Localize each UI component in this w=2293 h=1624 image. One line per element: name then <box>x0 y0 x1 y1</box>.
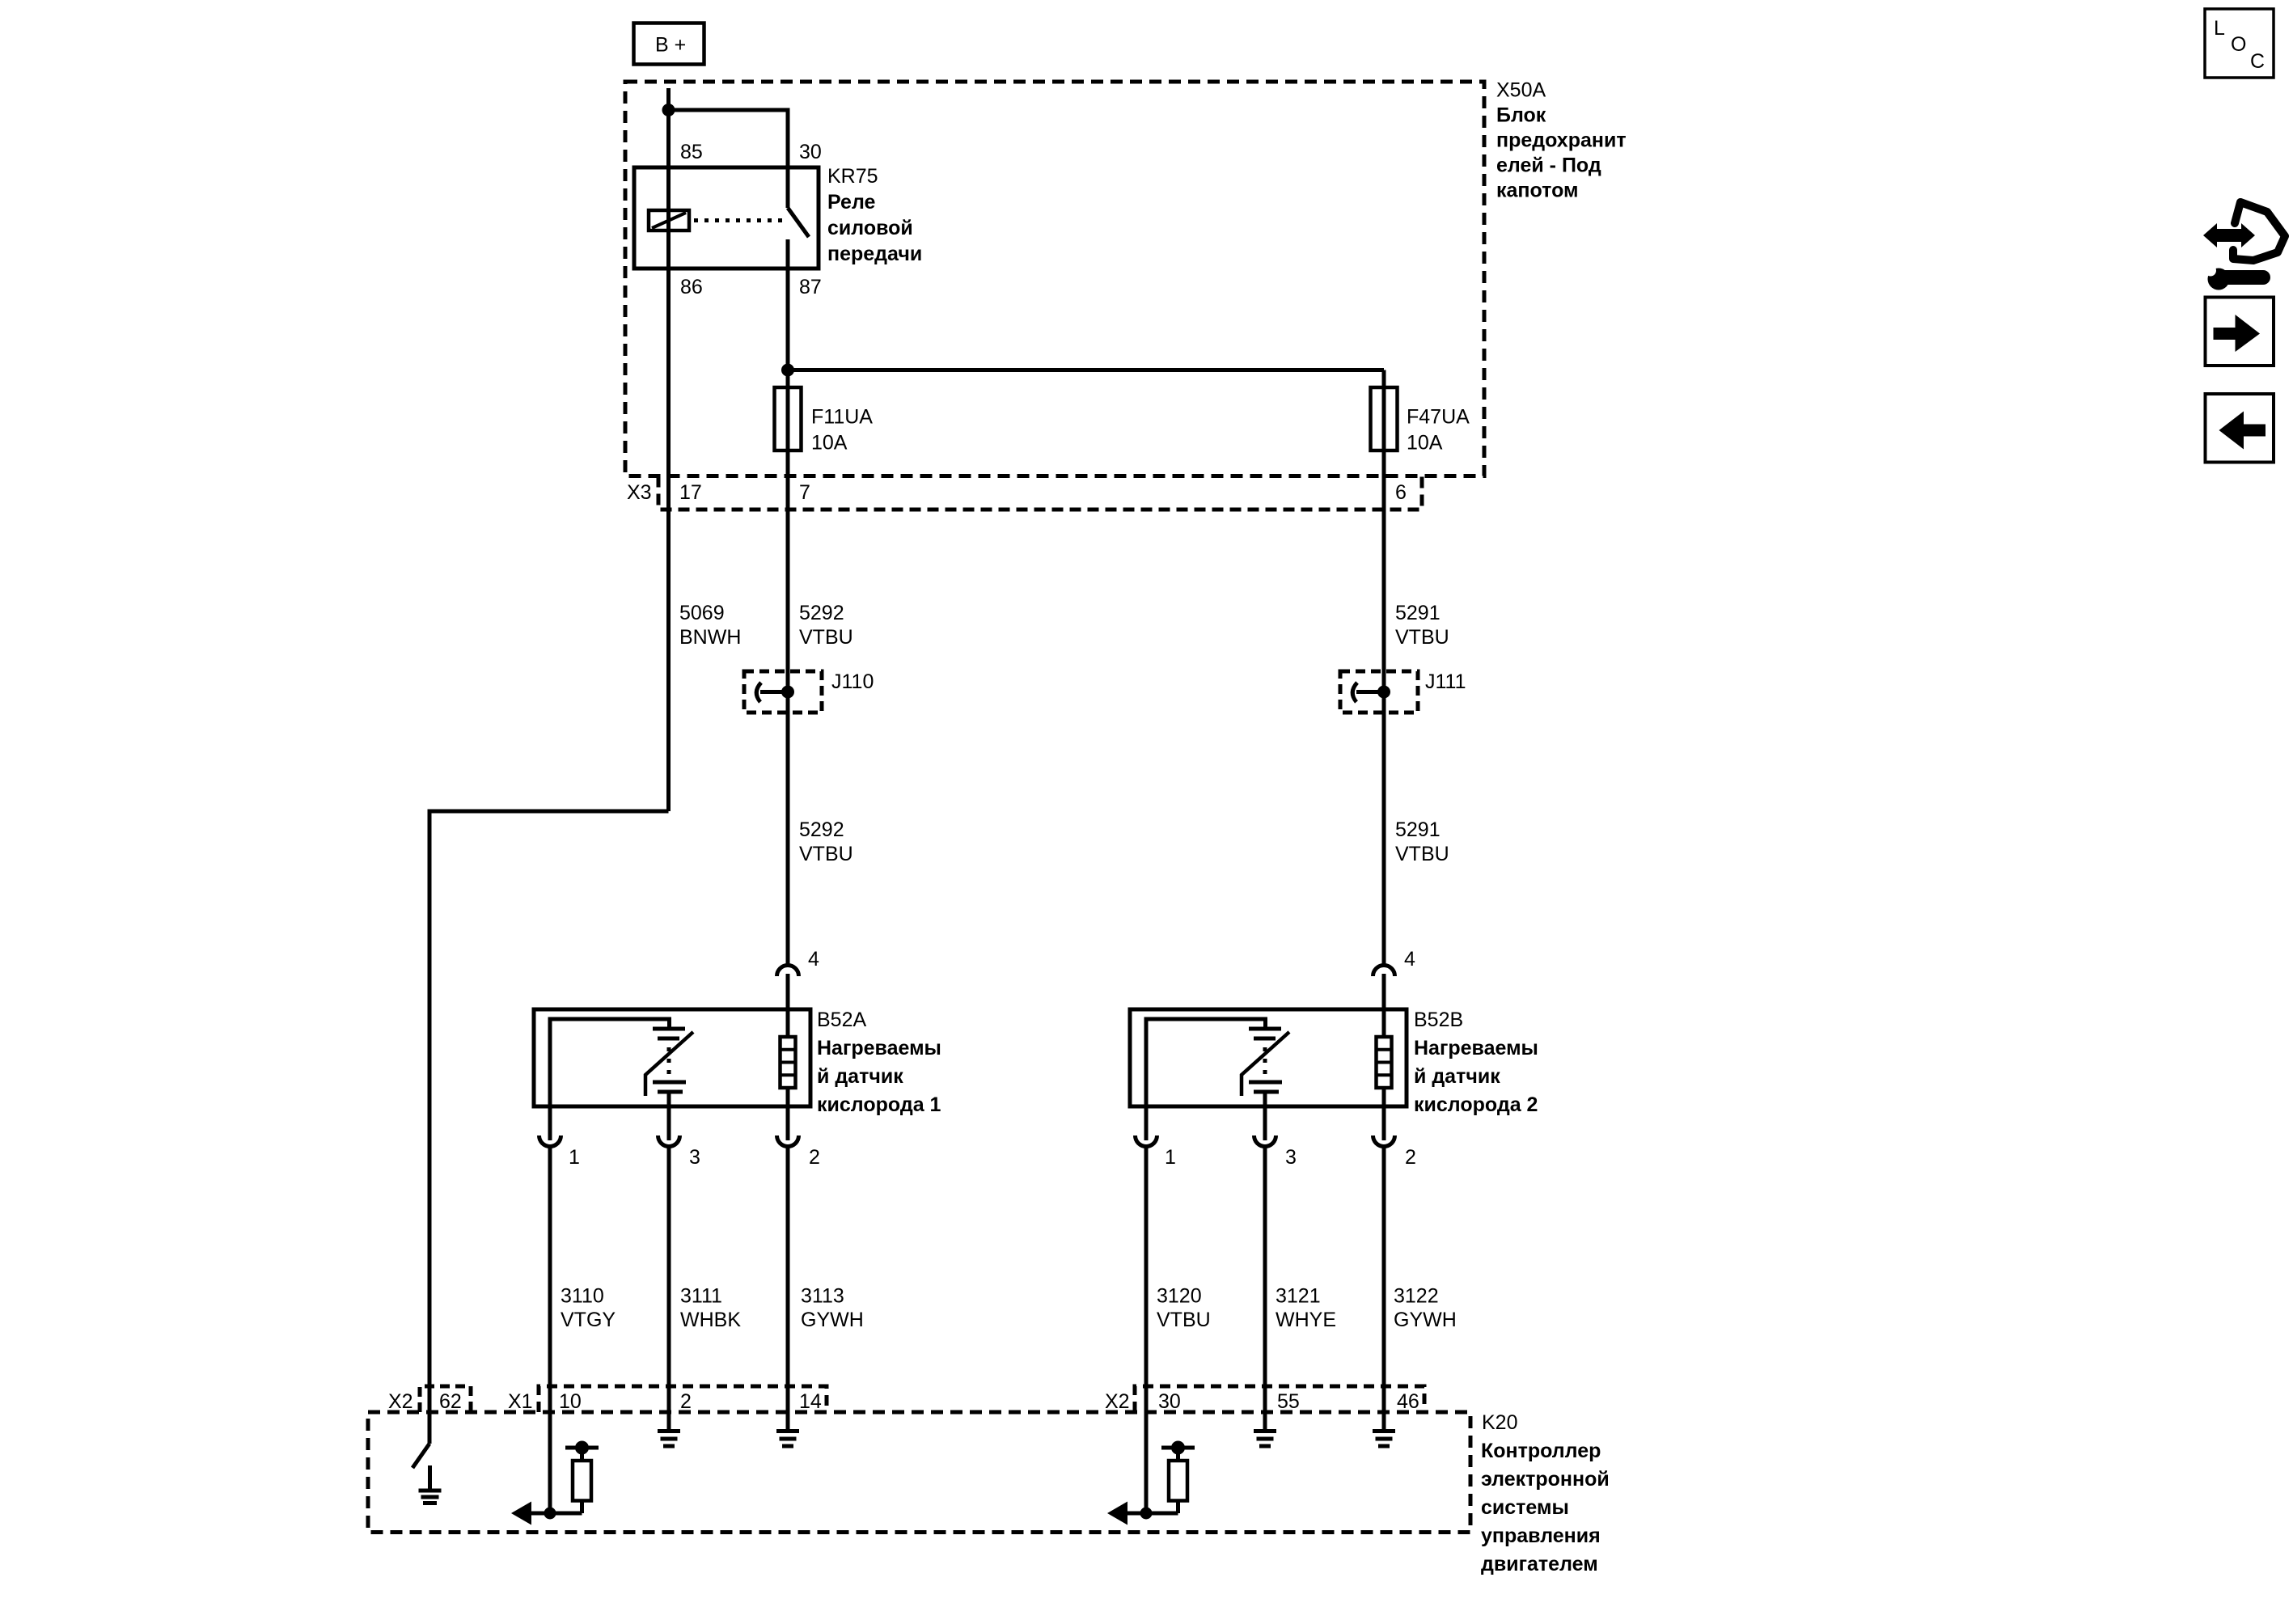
svg-text:5291: 5291 <box>1395 602 1441 624</box>
svg-text:2: 2 <box>680 1390 692 1413</box>
svg-text:KR75: KR75 <box>827 165 878 188</box>
K20 internal signal arrow right <box>1123 1512 1178 1516</box>
connector X1 pin dashed box <box>539 1386 827 1412</box>
svg-text:F11UA: F11UA <box>811 406 873 429</box>
svg-text:Нагреваемы: Нагреваемы <box>817 1037 941 1059</box>
svg-text:4: 4 <box>808 948 819 971</box>
svg-text:управления: управления <box>1481 1525 1601 1547</box>
svg-text:4: 4 <box>1404 948 1415 971</box>
svg-text:капотом: капотом <box>1496 180 1579 202</box>
wire 5291 from X3-6 to sensor 2 <box>1382 476 1386 968</box>
B52A pin 4 connector arc <box>777 966 799 977</box>
svg-text:BNWH: BNWH <box>679 626 741 649</box>
svg-text:3110: 3110 <box>561 1285 604 1308</box>
B52B pin 3 connector cup <box>1254 1136 1276 1147</box>
node junction under pin 87 <box>784 366 793 374</box>
relay switch blade <box>788 208 809 237</box>
svg-text:3111: 3111 <box>680 1285 722 1308</box>
svg-text:10A: 10A <box>811 432 848 455</box>
K20 switch upper contact from pin 62 <box>428 1412 432 1444</box>
svg-text:17: 17 <box>679 481 702 504</box>
B52B pin 1 stub <box>1144 1106 1149 1140</box>
svg-text:B52B: B52B <box>1414 1009 1463 1031</box>
connector X2-62 pin dashed box <box>420 1386 471 1412</box>
svg-text:й датчик: й датчик <box>1414 1065 1500 1088</box>
B52B heater element <box>1377 1037 1392 1088</box>
svg-text:14: 14 <box>799 1390 822 1413</box>
svg-text:2: 2 <box>809 1146 820 1169</box>
svg-text:3121: 3121 <box>1276 1285 1321 1308</box>
svg-text:GYWH: GYWH <box>801 1309 864 1331</box>
svg-text:B52A: B52A <box>817 1009 866 1031</box>
svg-text:Реле: Реле <box>827 191 876 214</box>
svg-text:X50A: X50A <box>1496 79 1546 102</box>
backward arrow box <box>2206 394 2274 463</box>
K20 pull-up resistor right <box>1176 1501 1180 1514</box>
svg-text:Контроллер: Контроллер <box>1481 1440 1601 1462</box>
wire 3121 <box>1263 1147 1267 1432</box>
svg-text:10: 10 <box>559 1390 582 1413</box>
node junction at pin85 branch <box>664 106 673 115</box>
svg-text:двигателем: двигателем <box>1481 1553 1598 1575</box>
svg-text:системы: системы <box>1481 1496 1569 1519</box>
svg-text:3: 3 <box>1285 1146 1297 1169</box>
svg-text:87: 87 <box>799 276 822 298</box>
svg-text:5292: 5292 <box>799 602 844 624</box>
X50A fuse block dashed box <box>625 82 1484 476</box>
svg-text:6: 6 <box>1395 481 1407 504</box>
svg-text:VTBU: VTBU <box>1157 1309 1211 1331</box>
wire 5069 corner to X2-62 <box>429 811 669 1444</box>
wire 3111 <box>667 1147 671 1432</box>
relay KR75 box <box>634 167 819 269</box>
ECM K20 dashed box <box>368 1412 1470 1533</box>
K20 switch lower contact <box>428 1465 432 1489</box>
svg-text:85: 85 <box>680 141 703 163</box>
svg-text:3120: 3120 <box>1157 1285 1202 1308</box>
ground under X1-14 <box>776 1429 799 1433</box>
svg-text:30: 30 <box>1158 1390 1181 1413</box>
svg-text:VTBU: VTBU <box>799 843 853 865</box>
svg-text:L: L <box>2214 17 2225 40</box>
svg-text:J111: J111 <box>1425 670 1466 693</box>
ground under X1-2 <box>658 1429 669 1433</box>
B+ supply box <box>634 23 704 65</box>
svg-text:5292: 5292 <box>799 818 844 841</box>
B52B pin 2 connector cup <box>1373 1136 1395 1147</box>
svg-text:46: 46 <box>1397 1390 1419 1413</box>
splice J110 node <box>784 687 793 696</box>
svg-text:VTBU: VTBU <box>1395 843 1449 865</box>
svg-text:VTGY: VTGY <box>561 1309 616 1331</box>
svg-text:F47UA: F47UA <box>1407 406 1470 429</box>
svg-text:C: C <box>2250 50 2265 73</box>
svg-text:30: 30 <box>799 141 822 163</box>
svg-text:K20: K20 <box>1482 1411 1517 1434</box>
svg-text:VTBU: VTBU <box>799 626 853 649</box>
svg-text:5291: 5291 <box>1395 818 1441 841</box>
fuse F11UA <box>775 387 802 450</box>
svg-text:7: 7 <box>799 481 810 504</box>
svg-text:передачи: передачи <box>827 243 922 265</box>
harness routing icon double arrow <box>2203 223 2255 247</box>
svg-text:1: 1 <box>569 1146 580 1169</box>
B52A heater element <box>781 1037 796 1088</box>
wire bus to F47UA <box>788 368 1384 372</box>
svg-text:WHYE: WHYE <box>1276 1309 1336 1331</box>
oxygen sensor B52A box <box>534 1009 810 1106</box>
relay lower contact wire pin 87 <box>786 239 790 370</box>
svg-text:предохранит: предохранит <box>1496 129 1627 152</box>
forward arrow box <box>2206 298 2274 366</box>
wire 3113 <box>786 1147 790 1432</box>
connector X3 dashed box <box>658 476 1422 510</box>
svg-text:VTBU: VTBU <box>1395 626 1449 649</box>
harness routing icon wrench <box>2205 265 2270 290</box>
svg-text:O: O <box>2231 33 2246 56</box>
K20 pull-up resistor left <box>580 1501 584 1514</box>
B52B sensing cell internals <box>1146 1019 1266 1106</box>
svg-text:55: 55 <box>1277 1390 1300 1413</box>
svg-text:Нагреваемы: Нагреваемы <box>1414 1037 1538 1059</box>
B52B pin 1 connector cup <box>1136 1136 1157 1147</box>
relay coil <box>649 210 689 230</box>
wire junction to relay pin 30 <box>669 110 789 208</box>
splice J111 node <box>1380 687 1389 696</box>
svg-text:3113: 3113 <box>801 1285 844 1308</box>
svg-text:3: 3 <box>689 1146 700 1169</box>
node pin30 junction <box>1142 1509 1150 1517</box>
harness routing icon wire path <box>2233 202 2285 260</box>
connector X2 right pin dashed box <box>1135 1386 1424 1412</box>
svg-text:кислорода 2: кислорода 2 <box>1414 1093 1538 1116</box>
svg-text:Блок: Блок <box>1496 104 1546 127</box>
LOC legend box <box>2205 9 2274 78</box>
B52A pin 1 connector cup <box>539 1136 561 1147</box>
svg-text:й датчик: й датчик <box>817 1065 903 1088</box>
B52A pin 3 connector cup <box>658 1136 680 1147</box>
svg-text:X1: X1 <box>508 1390 533 1413</box>
svg-text:X3: X3 <box>627 481 652 504</box>
svg-text:3122: 3122 <box>1394 1285 1439 1308</box>
relay dotted link <box>694 218 786 222</box>
B52A pin 1 stub <box>548 1106 552 1140</box>
wire 3120 <box>1144 1147 1149 1514</box>
ground under switch <box>419 1489 442 1493</box>
wire 3110 <box>548 1147 552 1514</box>
K20 switch blade <box>412 1444 429 1468</box>
svg-text:силовой: силовой <box>827 217 913 239</box>
B52A sensing cell internals <box>550 1019 670 1106</box>
splice J110 dashed box <box>744 671 822 713</box>
svg-text:X2: X2 <box>388 1390 413 1413</box>
svg-text:5069: 5069 <box>679 602 725 624</box>
svg-text:J110: J110 <box>831 670 874 693</box>
ground under X2-55 <box>1254 1429 1276 1433</box>
wire B+ to relay coil and down through X3-17 <box>666 88 671 811</box>
K20 internal signal arrow left <box>526 1512 582 1516</box>
svg-text:электронной: электронной <box>1481 1468 1610 1491</box>
svg-text:1: 1 <box>1165 1146 1176 1169</box>
svg-text:B +: B + <box>655 34 686 57</box>
B52A pin 2 connector cup <box>777 1136 799 1147</box>
svg-text:X2: X2 <box>1105 1390 1130 1413</box>
wire through fuse F47UA <box>1382 370 1386 476</box>
svg-text:2: 2 <box>1405 1146 1416 1169</box>
wire 3122 <box>1382 1147 1386 1432</box>
B52B pin 4 connector arc <box>1373 966 1395 977</box>
splice J111 dashed box <box>1340 671 1418 713</box>
svg-text:WHBK: WHBK <box>680 1309 741 1331</box>
svg-text:кислорода 1: кислорода 1 <box>817 1093 941 1116</box>
oxygen sensor B52B box <box>1130 1009 1407 1106</box>
node pin10 junction <box>546 1509 554 1517</box>
fuse F47UA <box>1371 387 1398 450</box>
ground under X2-46 <box>1373 1429 1395 1433</box>
svg-text:86: 86 <box>680 276 703 298</box>
wire through fuse F11UA <box>786 370 790 476</box>
svg-text:62: 62 <box>439 1390 462 1413</box>
wire 5292 from X3-7 to sensor 1 <box>786 476 790 968</box>
svg-text:GYWH: GYWH <box>1394 1309 1457 1331</box>
svg-text:елей - Под: елей - Под <box>1496 154 1601 177</box>
svg-text:10A: 10A <box>1407 432 1443 455</box>
